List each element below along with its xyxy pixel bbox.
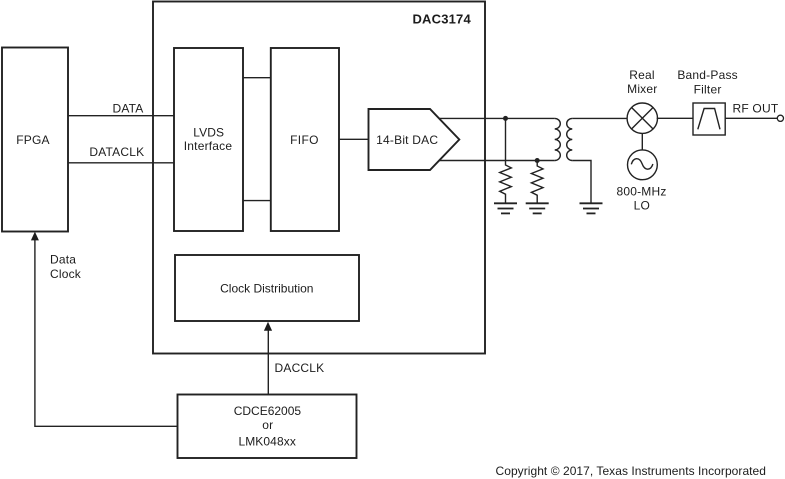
- wire DACCLK with arrow: [264, 322, 272, 395]
- svg-text:DATA: DATA: [112, 101, 143, 115]
- label Real Mixer: [627, 68, 657, 96]
- wire secondary top to mixer: [572, 117, 627, 119]
- wire mixer to LO: [641, 133, 643, 150]
- svg-text:Clock: Clock: [50, 267, 82, 281]
- ground GND1: [494, 203, 517, 213]
- svg-text:FIFO: FIFO: [290, 133, 319, 147]
- resistor R2: [531, 161, 543, 204]
- svg-text:or: or: [262, 418, 273, 432]
- wire Data Clock feedback with arrow: [31, 232, 178, 427]
- ground GND3: [580, 203, 603, 213]
- wire mixer to filter: [657, 117, 693, 119]
- block FPGA: [2, 48, 68, 232]
- transformer T1 secondary: [567, 118, 573, 160]
- svg-text:Clock Distribution: Clock Distribution: [220, 282, 313, 296]
- label 800-MHz LO: [616, 184, 666, 212]
- net label Data Clock: [50, 252, 82, 281]
- svg-text:LVDS: LVDS: [193, 126, 224, 140]
- wire DAC output M: [440, 160, 555, 162]
- node junction P: [503, 116, 508, 121]
- svg-text:Mixer: Mixer: [627, 82, 657, 96]
- block CDCE62005 or LMK048xx: [178, 395, 357, 459]
- block Clock Distribution: [175, 255, 359, 321]
- block 14-Bit DAC: [369, 109, 460, 170]
- block DAC3174 outline: [153, 2, 485, 354]
- svg-text:LO: LO: [634, 199, 650, 213]
- wire LVDS-FIFO bottom: [243, 200, 271, 202]
- svg-text:Interface: Interface: [184, 139, 233, 153]
- filter FL1 band-pass: [693, 103, 725, 135]
- mixer U3: [627, 103, 657, 133]
- wire FIFO to DAC: [339, 138, 369, 140]
- svg-text:14-Bit DAC: 14-Bit DAC: [376, 133, 438, 147]
- wire filter to RF OUT terminal: [725, 117, 777, 119]
- resistor R1: [500, 118, 512, 203]
- wire DATACLK: [68, 162, 174, 164]
- svg-text:FPGA: FPGA: [16, 133, 49, 147]
- svg-text:DAC3174: DAC3174: [412, 11, 471, 26]
- svg-text:Filter: Filter: [694, 83, 722, 97]
- svg-text:RF OUT: RF OUT: [733, 101, 779, 115]
- transformer T1 primary: [555, 118, 561, 160]
- svg-text:800-MHz: 800-MHz: [616, 184, 666, 198]
- wire DATA: [68, 115, 174, 117]
- block LVDS Interface: [174, 48, 243, 231]
- oscillator LO: [628, 150, 658, 180]
- svg-text:Band-Pass: Band-Pass: [677, 68, 738, 82]
- svg-text:Real: Real: [629, 68, 654, 82]
- wire LVDS-FIFO top: [243, 77, 271, 79]
- label Band-Pass Filter: [677, 68, 738, 96]
- wire DAC output P: [439, 117, 555, 119]
- terminal RF OUT: [777, 115, 783, 121]
- ground GND2: [526, 203, 549, 213]
- svg-text:DACCLK: DACCLK: [275, 361, 325, 375]
- svg-text:LMK048xx: LMK048xx: [238, 434, 296, 448]
- block FIFO: [271, 48, 339, 231]
- svg-text:DATACLK: DATACLK: [89, 145, 144, 159]
- svg-text:Copyright © 2017, Texas Instru: Copyright © 2017, Texas Instruments Inco…: [496, 464, 767, 478]
- svg-text:CDCE62005: CDCE62005: [234, 404, 302, 418]
- node junction M: [535, 158, 540, 163]
- wire secondary bottom to ground: [572, 161, 591, 204]
- svg-text:Data: Data: [50, 252, 76, 266]
